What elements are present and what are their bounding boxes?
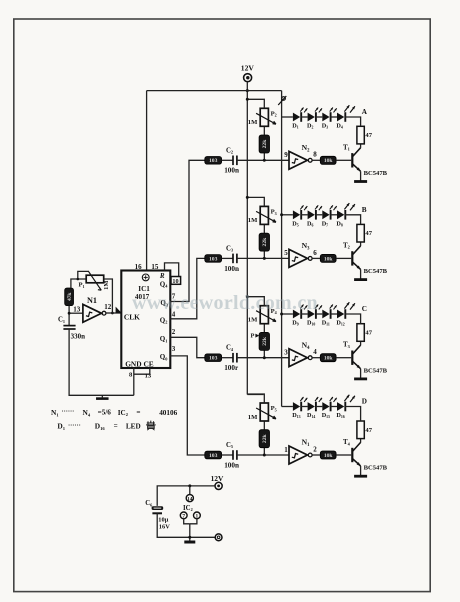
wire from IC1 output to channel B RC line <box>170 258 205 318</box>
svg-text:47: 47 <box>365 330 372 337</box>
wire +12V rail tap to P3 <box>246 196 264 207</box>
svg-text:www.eeworld.com.cn: www.eeworld.com.cn <box>132 292 318 314</box>
svg-text:10: 10 <box>172 278 178 285</box>
potentiometer P3 1M channel B <box>248 206 277 224</box>
resistor 22k channel A <box>259 126 269 160</box>
potentiometer P5 1M channel D <box>248 403 277 421</box>
wire channel D RC node to N input <box>237 454 289 456</box>
svg-text:47: 47 <box>365 230 372 237</box>
svg-text:7: 7 <box>182 514 185 520</box>
node +12V top label <box>241 63 255 72</box>
ground clock section <box>96 395 109 398</box>
op-amp/inverter N4 (40106) channel C <box>284 340 317 366</box>
wire N3 output <box>312 257 320 259</box>
resistor 47R channel D <box>357 421 373 439</box>
transistor T4 BC547B <box>343 438 388 472</box>
wire +12V LED rail to D13 <box>282 406 293 408</box>
wire +12V LED rail to D1 <box>282 116 293 118</box>
wire channel D <box>222 454 233 456</box>
terminal 0V bottom <box>215 534 222 541</box>
transistor T3 BC547B <box>343 341 388 375</box>
LED D13 <box>292 397 307 419</box>
wire LED row D to resistor, node D <box>345 398 367 422</box>
wire rail end to P5 (channel D) <box>247 394 263 396</box>
svg-text:9: 9 <box>284 151 288 159</box>
pin 15 label <box>151 263 159 271</box>
resistor 10k coupling channel C <box>205 354 222 362</box>
svg-text:103: 103 <box>209 158 218 164</box>
wire N4 output <box>312 357 320 359</box>
wire channel A <box>222 159 233 161</box>
pin 4 label <box>172 310 176 318</box>
svg-text:BC547B: BC547B <box>364 367 388 374</box>
wire T4 collector/emitter <box>360 439 362 476</box>
wire from IC1 output to channel C RC line <box>170 337 205 357</box>
wire to T2 base <box>336 257 351 259</box>
LED D6 <box>307 205 322 227</box>
svg-text:47: 47 <box>365 427 372 434</box>
svg-text:1M: 1M <box>248 414 258 421</box>
svg-text:100n: 100n <box>224 461 239 469</box>
svg-text:22k: 22k <box>262 237 268 247</box>
svg-text:16V: 16V <box>159 524 170 531</box>
wire +12V LED rail to D9 <box>280 313 293 316</box>
wire from IC1 output to channel A RC line <box>170 160 205 301</box>
svg-text:D: D <box>362 398 367 406</box>
wire channel A RC node to N input <box>237 159 289 161</box>
svg-text:22k: 22k <box>262 139 268 149</box>
svg-text:1: 1 <box>284 446 288 454</box>
svg-text:47: 47 <box>365 132 372 139</box>
wire T3 collector/emitter <box>360 341 362 378</box>
ground below T1 <box>354 180 367 183</box>
LED D8 <box>336 203 355 227</box>
svg-text:103: 103 <box>209 356 218 362</box>
wire to T3 base <box>336 357 351 359</box>
wire VDD to IC1 pin16 <box>146 91 148 271</box>
svg-text:15: 15 <box>151 263 159 271</box>
svg-text:12V: 12V <box>211 474 224 483</box>
svg-text:6: 6 <box>313 249 317 257</box>
trimmer arrow P on 22k channel C <box>251 333 260 340</box>
svg-text:3: 3 <box>172 345 176 353</box>
svg-text:C: C <box>362 305 367 313</box>
capacitor C4 100n <box>224 345 239 372</box>
resistor 22k channel D <box>259 421 269 455</box>
wire LED row A to resistor, node A <box>345 108 368 126</box>
wires IC2 pins to ground <box>184 519 197 538</box>
resistor 22k channel B <box>259 224 269 258</box>
svg-text:=: = <box>114 422 118 430</box>
svg-text:BC547B: BC547B <box>364 465 388 472</box>
LED D16 <box>336 395 355 419</box>
resistor 47k clock <box>65 288 74 306</box>
wire bottom supply top <box>157 484 215 506</box>
wire +12V top rail <box>147 90 282 92</box>
note N1..N4 = 5/6 IC2 = 40106 <box>51 408 178 417</box>
svg-text:4: 4 <box>313 348 317 356</box>
svg-text:12: 12 <box>104 303 112 311</box>
svg-text:GND CE: GND CE <box>125 359 154 368</box>
wire N2 output <box>312 159 320 161</box>
node junction 22k / line A <box>263 159 266 162</box>
LED D2 <box>307 108 322 130</box>
svg-text:8: 8 <box>313 151 317 159</box>
svg-text:1M: 1M <box>248 217 258 224</box>
svg-text:R: R <box>159 272 165 280</box>
terminal +12V top <box>244 74 252 82</box>
wire N1 output <box>312 454 320 456</box>
svg-text:10k: 10k <box>324 158 334 164</box>
capacitor C6 10u electrolytic <box>145 500 170 530</box>
svg-text:3: 3 <box>284 349 288 357</box>
resistor 47R channel B <box>357 224 373 242</box>
pins 8 13 to ground <box>129 368 152 395</box>
svg-text:12V: 12V <box>241 63 255 72</box>
wire P1 top loop <box>77 271 90 280</box>
wire T1 collector/emitter <box>360 144 362 181</box>
node junction 22k / line D <box>263 454 266 457</box>
resistor 10k coupling channel D <box>205 451 222 459</box>
node +12V bottom label <box>211 474 224 483</box>
svg-text:13: 13 <box>145 373 152 380</box>
svg-text:BC547B: BC547B <box>364 268 388 275</box>
potentiometer P4 1M channel C <box>248 306 277 324</box>
op-amp/inverter N2 (40106) channel A <box>284 143 317 169</box>
LED D7 <box>322 205 337 227</box>
wire channel C <box>222 357 233 359</box>
wire channel C RC node to N input <box>237 357 289 359</box>
svg-text:LED: LED <box>126 422 141 430</box>
resistor 47R channel A <box>357 126 373 144</box>
resistor 10k coupling channel B <box>205 255 222 263</box>
svg-text:BC547B: BC547B <box>364 170 388 177</box>
svg-text:100n: 100n <box>224 265 239 273</box>
resistor 10k base T2 <box>320 254 336 262</box>
svg-text:1M: 1M <box>103 281 110 290</box>
transistor T1 BC547B <box>343 143 388 177</box>
node junction 22k / line B <box>263 257 266 260</box>
svg-text:=5/6: =5/6 <box>98 409 112 417</box>
resistor 10k base T1 <box>320 156 336 164</box>
potentiometer P1 1M <box>79 272 111 291</box>
svg-text:······: ······ <box>68 422 81 429</box>
wire T2 collector/emitter <box>360 242 362 279</box>
ground below T4 <box>354 475 367 478</box>
LED D5 <box>292 205 307 227</box>
potentiometer P2 1M channel A <box>248 108 277 126</box>
wire +12V rail tap to P2 <box>246 98 264 109</box>
wire +12V rail tap to P5 <box>247 394 264 403</box>
svg-text:B: B <box>362 206 367 214</box>
IC2 pin 14 circle <box>186 495 193 503</box>
svg-text:16: 16 <box>135 263 143 271</box>
pin 7 label <box>172 293 176 301</box>
node junction 22k / line C <box>263 356 266 359</box>
IC2 label <box>183 505 193 512</box>
wire P1 left / 47k <box>71 279 86 288</box>
svg-text:N1: N1 <box>87 296 97 305</box>
svg-text:1: 1 <box>196 514 199 520</box>
svg-text:40106: 40106 <box>159 409 177 417</box>
capacitor C3 100n <box>224 245 239 272</box>
LED D9 <box>292 305 307 327</box>
wire 47k to N1 input node <box>69 306 83 314</box>
svg-text:2: 2 <box>172 328 176 336</box>
IC2 pin 1 circle <box>194 512 201 520</box>
ground below T3 <box>354 377 367 380</box>
svg-text:2: 2 <box>313 445 317 453</box>
wire 12V terminal down / +12V pot rail <box>246 82 249 395</box>
LED D14 <box>307 397 322 419</box>
resistor 10k base T4 <box>320 451 336 459</box>
svg-text:22k: 22k <box>262 336 268 346</box>
svg-text:······: ······ <box>62 408 75 415</box>
pin 10 box <box>171 277 181 285</box>
svg-text:100r: 100r <box>224 364 239 372</box>
wire to T1 base <box>336 159 351 161</box>
LED D15 <box>322 397 337 419</box>
resistor 22k channel C <box>259 324 269 358</box>
wire channel B <box>222 257 233 259</box>
wire LED row B to resistor, node B <box>345 206 367 225</box>
svg-text:P: P <box>251 333 255 340</box>
svg-text:=: = <box>136 408 140 416</box>
capacitor C1 330n <box>58 312 85 341</box>
switch mark on LED rail <box>278 96 286 105</box>
wire +12V LED rail <box>281 91 283 407</box>
svg-text:10k: 10k <box>324 453 334 459</box>
capacitor C2 100n <box>224 147 239 174</box>
wire reset loop pin15 to pin10 <box>165 263 179 277</box>
svg-text:A: A <box>362 108 368 116</box>
note D1..D16 = LED yellow <box>57 421 155 431</box>
op-amp U1 / IC1 4017 body <box>121 271 170 369</box>
inverter N1 clock <box>73 296 112 322</box>
svg-text:103: 103 <box>209 453 218 459</box>
ground below T2 <box>354 278 367 281</box>
transistor T2 BC547B <box>343 241 388 275</box>
wire C6 bottom rail <box>157 513 215 539</box>
svg-text:10μ: 10μ <box>158 516 168 523</box>
wire +12V rail tap to P4 <box>246 295 264 306</box>
resistor 47R channel C <box>357 324 373 342</box>
wire channel B RC node to N input <box>237 257 289 259</box>
wire from IC1 output to channel D RC line <box>170 356 205 455</box>
svg-text:1M: 1M <box>248 317 258 324</box>
wire to IC2 pin 14 <box>189 486 191 495</box>
svg-text:47k: 47k <box>67 292 73 302</box>
svg-text:1M: 1M <box>248 119 258 126</box>
LED D4 <box>336 105 355 129</box>
IC2 pin 7 circle <box>180 512 187 520</box>
svg-text:22k: 22k <box>262 433 268 443</box>
svg-text:330n: 330n <box>71 332 86 340</box>
LED D10 <box>307 305 322 327</box>
ground bottom supply <box>184 537 195 542</box>
LED D1 <box>292 108 307 130</box>
svg-text:13: 13 <box>73 306 81 314</box>
svg-text:10k: 10k <box>324 356 334 362</box>
pin 16 label <box>135 263 143 271</box>
terminal +12V bottom <box>215 482 222 489</box>
op-amp/inverter N3 (40106) channel B <box>284 241 317 267</box>
wire N1 output to CLK <box>106 312 121 314</box>
svg-text:100n: 100n <box>224 167 239 175</box>
LED D12 <box>336 302 355 326</box>
op-amp/inverter N1 (40106) channel D <box>284 438 317 464</box>
svg-text:10k: 10k <box>324 256 334 262</box>
wire to T4 base <box>336 454 351 456</box>
svg-text:103: 103 <box>209 256 218 262</box>
pin 3 label <box>172 345 176 353</box>
clock input arrow <box>116 307 122 313</box>
wire C1 to ground rail <box>69 329 134 395</box>
svg-text:5: 5 <box>284 249 288 257</box>
svg-text:14: 14 <box>187 496 193 502</box>
capacitor C5 100n <box>224 442 239 469</box>
wire +12V LED rail to D5 <box>280 213 293 216</box>
resistor 10k base T3 <box>320 354 336 362</box>
LED D3 <box>322 108 337 130</box>
pin 2 label <box>172 328 176 336</box>
wire P1 right to N1 output <box>104 279 114 314</box>
LED D11 <box>322 305 337 327</box>
resistor 10k coupling channel A <box>205 157 222 165</box>
wire LED row C to resistor, node C <box>345 305 367 324</box>
